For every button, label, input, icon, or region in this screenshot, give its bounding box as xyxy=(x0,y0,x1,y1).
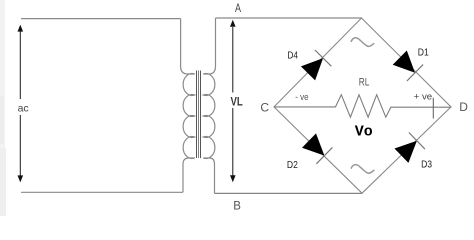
svg-text:RL: RL xyxy=(359,77,370,89)
svg-text:VL: VL xyxy=(231,95,243,109)
svg-text:+ ve: + ve xyxy=(414,92,433,102)
svg-text:D1: D1 xyxy=(418,46,429,58)
svg-text:Vo: Vo xyxy=(355,123,373,140)
svg-text:D2: D2 xyxy=(287,159,298,171)
svg-text:D3: D3 xyxy=(421,159,432,171)
svg-text:D: D xyxy=(459,100,468,114)
svg-text:- ve: - ve xyxy=(295,92,308,102)
svg-text:B: B xyxy=(233,201,241,213)
svg-text:ac: ac xyxy=(18,103,29,115)
svg-text:D4: D4 xyxy=(287,49,298,61)
svg-text:A: A xyxy=(235,1,241,15)
svg-text:C: C xyxy=(260,101,269,115)
